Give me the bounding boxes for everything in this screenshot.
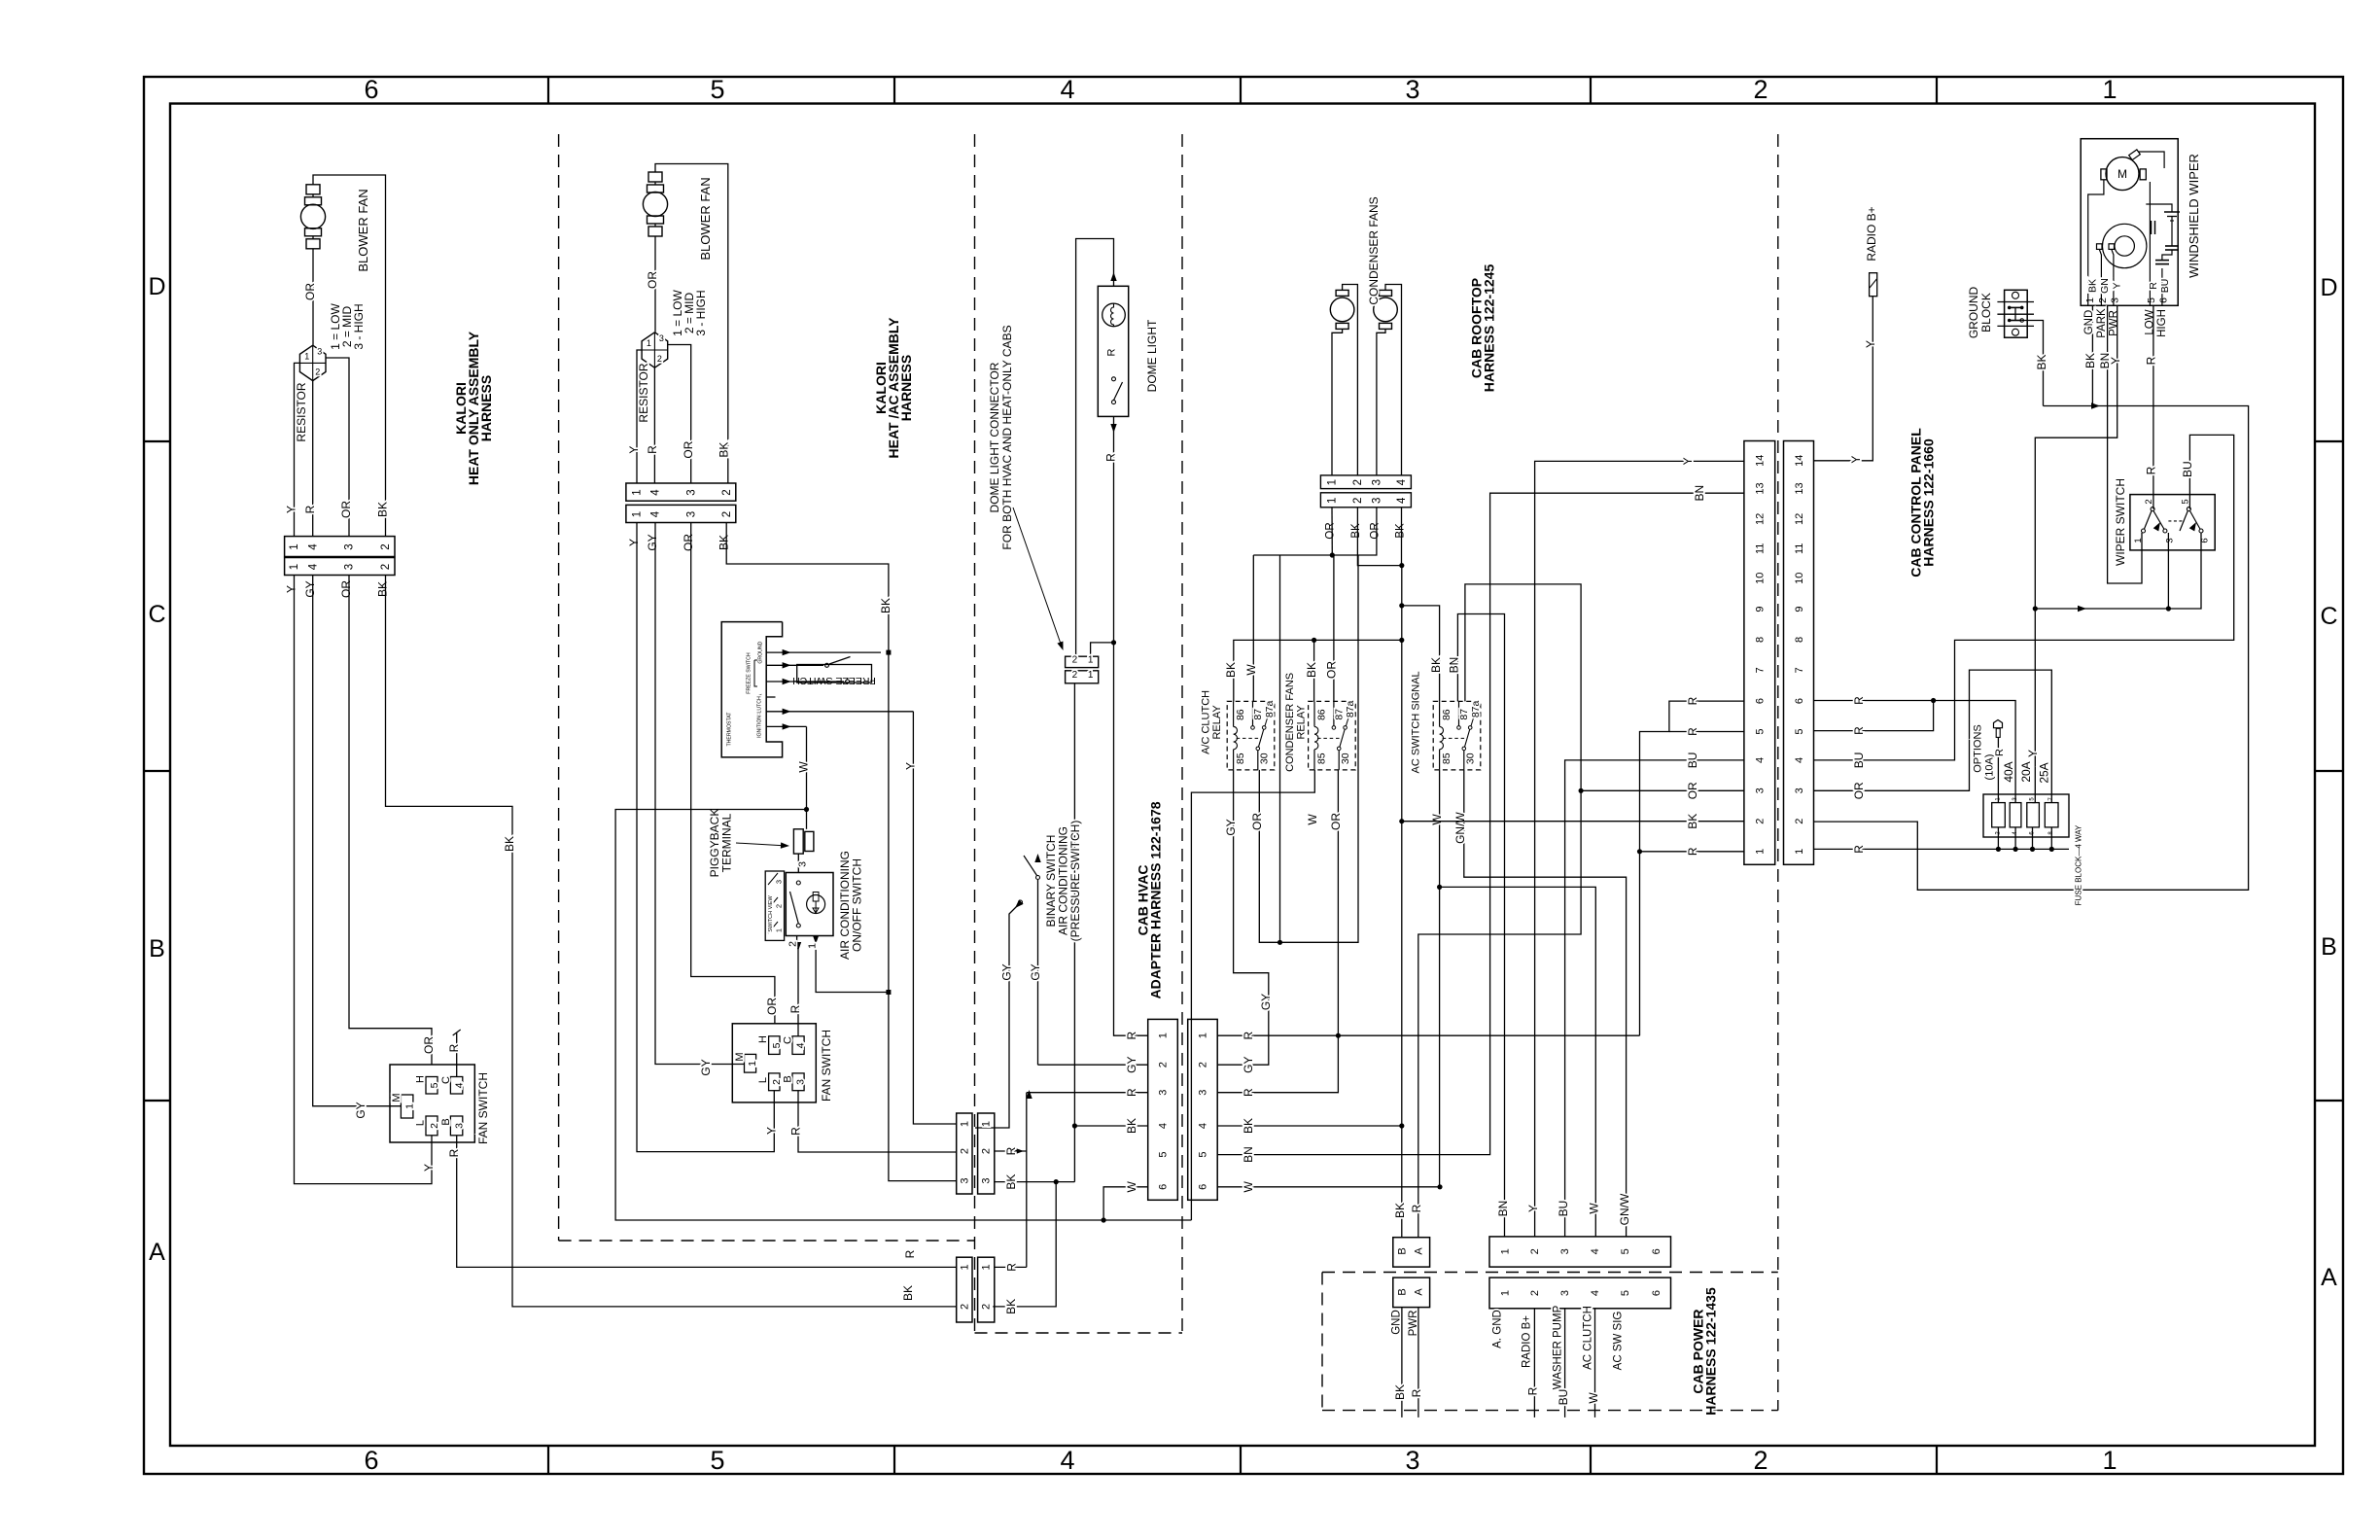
zone dividers top strip [547, 77, 549, 104]
svg-text:Y: Y [1864, 340, 1877, 348]
svg-text:Y: Y [1681, 457, 1695, 465]
svg-text:85: 85 [1315, 752, 1327, 764]
wire OR resistor2 pin3 [668, 345, 691, 484]
svg-text:4: 4 [1590, 1248, 1601, 1254]
wire BK ground block to ground bus [2022, 321, 2044, 406]
svg-text:4: 4 [1396, 497, 1408, 504]
svg-text:R: R [2144, 466, 2157, 474]
wire condenser fan M4 loops [1385, 285, 1402, 475]
svg-text:BLOWER FAN: BLOWER FAN [698, 177, 713, 260]
freeze switch module pin GROUND [766, 651, 881, 653]
svg-text:BK: BK [2083, 353, 2097, 368]
wiper gear [2103, 224, 2147, 267]
wire Y resistor2 pin1 [637, 350, 642, 483]
svg-text:2: 2 [2097, 297, 2109, 303]
wire R cab power B/A pin A to relay3 87 [1418, 584, 1581, 1238]
svg-text:R: R [1242, 1032, 1255, 1040]
wire R rooftop right pin1 fuse feed [1814, 848, 2070, 850]
condenser fan M3 [1336, 290, 1348, 296]
svg-text:BU: BU [1686, 752, 1699, 769]
rooftop 14-pin connector pair [1744, 441, 1775, 865]
svg-text:5: 5 [1755, 728, 1767, 734]
svg-text:1: 1 [632, 511, 644, 517]
svg-text:OR: OR [1370, 522, 1382, 539]
svg-text:B: B [440, 1118, 452, 1125]
wire R rooftop right pin6 to fuse 40A [1814, 701, 2016, 803]
svg-text:11: 11 [1794, 543, 1805, 554]
wiper motor M [2106, 157, 2139, 191]
svg-text:8: 8 [1794, 637, 1805, 643]
svg-text:87a: 87a [1470, 700, 1482, 717]
svg-text:1: 1 [1198, 1032, 1209, 1038]
svg-text:BK: BK [1393, 1203, 1407, 1218]
svg-text:RADIO B+: RADIO B+ [1522, 1315, 1533, 1368]
svg-text:FAN SWITCH: FAN SWITCH [820, 1030, 833, 1102]
wire R A/C switch to fan switch 2 pin4 [797, 942, 799, 1036]
cab power harness dashed box [1322, 1272, 1778, 1274]
svg-text:R: R [1852, 696, 1866, 705]
svg-text:B: B [149, 935, 165, 962]
svg-text:R: R [1125, 1088, 1138, 1097]
svg-text:2: 2 [1352, 498, 1364, 504]
svg-text:85: 85 [1441, 752, 1452, 764]
svg-text:3: 3 [796, 861, 808, 867]
svg-text:20A: 20A [2019, 761, 2033, 782]
svg-text:R: R [1686, 847, 1699, 856]
svg-text:A: A [1414, 1288, 1425, 1296]
adapter 2-pin connector pair [957, 1257, 972, 1322]
wire BN relay3 86 to cab power pin1 [1457, 614, 1504, 1237]
svg-text:2: 2 [1352, 479, 1364, 485]
svg-text:OR: OR [682, 440, 695, 458]
adapter 6-pin right wire W [1217, 1186, 1440, 1188]
svg-text:SWITCH VIEW: SWITCH VIEW [768, 895, 774, 932]
svg-text:R: R [1525, 1386, 1539, 1395]
svg-text:13: 13 [1794, 482, 1805, 494]
svg-text:R: R [1103, 453, 1117, 462]
svg-text:OR: OR [303, 283, 317, 300]
wire from boundary to relay1 30 run [1279, 555, 1281, 942]
svg-text:R: R [1125, 1032, 1138, 1040]
svg-text:FREEZE SWITCH: FREEZE SWITCH [792, 675, 876, 686]
adapter 6-pin right wire R pin3 up to pin1 R [1217, 1035, 1338, 1093]
svg-text:Y: Y [1526, 1205, 1540, 1212]
svg-text:WASHER PUMP: WASHER PUMP [1553, 1305, 1564, 1389]
svg-text:BK: BK [1224, 662, 1238, 678]
svg-text:AC SW SIG: AC SW SIG [1613, 1312, 1625, 1371]
kalori heat/ac box bottom dashed [559, 1240, 975, 1242]
connector J2A heat/ac 4-pin [626, 483, 736, 501]
svg-text:3: 3 [2109, 297, 2120, 303]
wire R rooftop right pin5 jumper [1814, 701, 1934, 731]
svg-text:W: W [1244, 664, 1258, 676]
svg-text:3: 3 [1372, 479, 1383, 485]
svg-text:8: 8 [1755, 637, 1767, 643]
fan switch S2 (heat/ac) [732, 1024, 816, 1102]
svg-text:C: C [783, 1036, 794, 1044]
svg-text:12: 12 [1755, 513, 1767, 525]
svg-text:2: 2 [380, 564, 392, 570]
svg-text:5: 5 [1198, 1152, 1209, 1158]
wire R bus to lower 2-pin pin1 [995, 1266, 1027, 1268]
svg-text:WIPER SWITCH: WIPER SWITCH [2114, 478, 2127, 566]
svg-text:CONDENSER FANS: CONDENSER FANS [1367, 196, 1381, 304]
svg-text:3: 3 [1559, 1248, 1571, 1254]
wire Y radio B+ to rooftop right pin14 [1814, 297, 1873, 461]
svg-text:4: 4 [1198, 1123, 1209, 1129]
svg-text:R: R [788, 1004, 802, 1013]
switch view box [765, 871, 784, 940]
svg-text:CONDENSER FANS: CONDENSER FANS [1284, 673, 1296, 772]
svg-text:BK: BK [879, 598, 892, 613]
svg-text:1: 1 [632, 489, 644, 495]
freeze switch module outline [721, 622, 782, 757]
svg-text:ON/OFF SWITCH: ON/OFF SWITCH [850, 858, 863, 952]
svg-text:RELAY: RELAY [1295, 705, 1307, 740]
windshield wiper box [2081, 139, 2178, 306]
svg-text:OR: OR [339, 580, 353, 598]
svg-text:DOME LIGHT CONNECTOR: DOME LIGHT CONNECTOR [988, 362, 1001, 512]
svg-text:1: 1 [981, 1121, 993, 1127]
svg-text:BLOWER FAN: BLOWER FAN [356, 189, 370, 271]
svg-text:FREEZE SWITCH: FREEZE SWITCH [747, 652, 752, 694]
svg-text:6: 6 [2157, 297, 2169, 303]
svg-text:BK: BK [1429, 657, 1443, 673]
wire BN wiper park to wiper switch pin1 [2108, 305, 2142, 583]
svg-text:R: R [646, 445, 659, 454]
svg-text:1: 1 [959, 1264, 970, 1270]
wire R rooftop pin1 left to R feed [1640, 851, 1744, 853]
svg-text:9: 9 [1794, 606, 1805, 612]
svg-text:OR: OR [682, 534, 695, 551]
wire OR rooftop pin3 left [1581, 789, 1744, 791]
svg-text:W: W [1242, 1180, 1255, 1192]
svg-text:6: 6 [364, 1446, 378, 1475]
svg-text:4: 4 [1060, 1446, 1074, 1475]
svg-text:5: 5 [771, 1042, 783, 1048]
a/c clutch relay K1 [1227, 701, 1275, 770]
svg-text:Y: Y [2026, 750, 2040, 757]
svg-text:RESISTOR: RESISTOR [637, 363, 650, 422]
condenser fan M4 [1380, 290, 1392, 296]
svg-text:4: 4 [307, 543, 319, 550]
svg-text:GY: GY [354, 1102, 367, 1118]
svg-text:HARNESS: HARNESS [898, 355, 914, 421]
wire R adapter 3-pin pin2 to R bus [995, 1150, 1027, 1152]
svg-text:R: R [1242, 1088, 1255, 1097]
blower fan M2 (heat/ac) [648, 172, 662, 182]
svg-text:2: 2 [959, 1304, 970, 1310]
adapter 6-pin connector pair [1148, 1019, 1178, 1200]
svg-text:3: 3 [685, 511, 697, 517]
svg-text:4: 4 [794, 1042, 806, 1048]
svg-text:HARNESS 122-1660: HARNESS 122-1660 [1921, 438, 1937, 567]
dome light lamp [1102, 303, 1126, 327]
ac switch signal relay K3 [1433, 701, 1481, 770]
svg-text:R: R [1852, 726, 1866, 735]
wire fan1 top to BK drop [313, 175, 386, 537]
svg-text:4: 4 [1755, 757, 1767, 763]
svg-text:5: 5 [2146, 297, 2157, 303]
wire BK wiper GND pin1 [2091, 305, 2093, 405]
svg-text:2: 2 [657, 354, 662, 364]
svg-text:OR: OR [646, 271, 659, 289]
svg-text:5: 5 [1158, 1152, 1170, 1158]
svg-text:1: 1 [403, 1103, 415, 1109]
svg-text:A: A [1414, 1247, 1425, 1255]
svg-text:BK: BK [1350, 523, 1362, 539]
svg-text:1: 1 [2102, 75, 2117, 104]
svg-text:R: R [1994, 749, 2006, 756]
svg-text:OR: OR [1324, 661, 1338, 679]
wire BK dome connector to adapter 6-pin pin4 and 3-pin pin3 [1073, 683, 1075, 1182]
svg-text:4: 4 [1158, 1123, 1170, 1129]
svg-text:IGNITION: IGNITION [757, 716, 763, 738]
harness boundary dashed line x=1829 [1777, 134, 1779, 1411]
cab power 6-pin lower wires [1533, 1309, 1535, 1417]
svg-text:R: R [1106, 348, 1118, 356]
wire BK relay3 85 to BK bus [1402, 606, 1440, 702]
svg-text:BK: BK [717, 442, 730, 458]
svg-text:OR: OR [1686, 782, 1699, 799]
wire GY to fan switch 1 pin1 [313, 576, 402, 1106]
wire relay1 87a to junction [1252, 555, 1254, 701]
svg-text:4: 4 [650, 510, 662, 517]
svg-text:GROUND: GROUND [758, 641, 764, 663]
harness boundary dashed line x=1002 [974, 134, 976, 1333]
svg-text:GROUND: GROUND [1967, 287, 1980, 339]
svg-text:1: 1 [2102, 1446, 2117, 1475]
adapter 6-pin right wire BN to rooftop pin13 [1217, 493, 1744, 1154]
svg-text:R: R [2144, 356, 2157, 365]
svg-text:3: 3 [453, 1123, 465, 1129]
a/c switch pin2 wire down [796, 936, 798, 943]
svg-text:M: M [391, 1093, 402, 1102]
svg-text:DOME LIGHT: DOME LIGHT [1145, 319, 1159, 392]
cab power B/A connector lower [1393, 1277, 1430, 1308]
svg-text:Y: Y [2109, 357, 2122, 365]
connector J1B heat-only 4-pin [285, 558, 395, 576]
svg-text:A: A [149, 1239, 165, 1266]
wire Y cab power pin2 to rooftop pin14 [1535, 461, 1744, 1237]
svg-text:HARNESS 122-1435: HARNESS 122-1435 [1703, 1287, 1719, 1416]
svg-text:C: C [148, 601, 165, 628]
svg-text:FAN SWITCH: FAN SWITCH [476, 1072, 490, 1144]
svg-text:4: 4 [1396, 478, 1408, 485]
svg-text:2: 2 [315, 367, 320, 376]
wire BK relay1 86 to BK bus [1234, 640, 1402, 701]
svg-text:2: 2 [1753, 75, 1767, 104]
freeze switch pin 3A stub [766, 696, 775, 698]
svg-text:GY: GY [999, 963, 1013, 980]
svg-text:3: 3 [344, 564, 356, 570]
wire relay2 87 from junction [1333, 555, 1335, 701]
svg-text:OPTIONS: OPTIONS [1973, 724, 1984, 773]
svg-text:R: R [1410, 1388, 1423, 1397]
svg-text:2: 2 [1072, 670, 1078, 681]
adapter 3-pin connector pair [957, 1113, 972, 1194]
svg-text:1: 1 [304, 351, 309, 361]
wire OR rooftop right pin3 to fuse 25A [1814, 670, 2052, 803]
svg-text:1: 1 [2133, 538, 2144, 542]
svg-text:BK: BK [717, 535, 730, 550]
svg-text:GY: GY [1125, 1057, 1138, 1073]
svg-text:2: 2 [1158, 1062, 1170, 1067]
svg-text:2: 2 [1755, 819, 1767, 824]
svg-text:87: 87 [1458, 709, 1470, 720]
wire BK heat/ac ground bus [726, 523, 957, 1181]
svg-text:BLOCK: BLOCK [1979, 293, 1993, 332]
harness boundary dashed line x=1216 [1181, 134, 1183, 1333]
svg-text:3: 3 [659, 333, 664, 343]
wire Y to fan switch 1 pin2 [295, 576, 433, 1184]
wire BU wiper switch pin5 to rooftop pin4 [1814, 435, 2234, 760]
svg-text:W: W [1306, 814, 1319, 825]
wiper switch contacts [2151, 507, 2154, 511]
svg-text:Y: Y [627, 446, 641, 454]
dome light connector arrow [1013, 507, 1062, 647]
svg-text:2: 2 [1529, 1248, 1541, 1254]
svg-text:BU: BU [2181, 461, 2194, 477]
svg-text:WINDSHIELD WIPER: WINDSHIELD WIPER [2187, 154, 2201, 278]
svg-text:3: 3 [2164, 538, 2175, 542]
svg-text:GY: GY [646, 534, 659, 550]
svg-text:Y: Y [1849, 456, 1863, 464]
wiper park contacts [2097, 244, 2103, 250]
svg-text:GY: GY [699, 1059, 713, 1075]
svg-text:GN: GN [2099, 278, 2111, 294]
svg-text:1: 1 [289, 543, 300, 549]
svg-text:3: 3 [1794, 787, 1805, 793]
svg-text:1: 1 [806, 943, 818, 949]
fuse F4 25A [2045, 803, 2058, 827]
svg-text:87: 87 [1252, 709, 1264, 720]
svg-text:L: L [757, 1077, 769, 1083]
svg-text:FOR BOTH HVAC AND HEAT-ONLY CA: FOR BOTH HVAC AND HEAT-ONLY CABS [1000, 325, 1014, 549]
svg-text:4: 4 [650, 489, 662, 496]
binary switch (pressure switch) [1037, 880, 1039, 1065]
svg-text:Y: Y [903, 762, 917, 770]
svg-text:2: 2 [787, 941, 798, 947]
svg-text:GY: GY [303, 580, 317, 597]
svg-text:2: 2 [981, 1304, 993, 1310]
wiper ground symbol [2164, 211, 2180, 213]
svg-text:1: 1 [747, 1061, 758, 1067]
svg-text:BN: BN [1496, 1201, 1510, 1217]
svg-text:R: R [1004, 1263, 1018, 1272]
svg-text:1: 1 [1755, 849, 1767, 855]
svg-text:R: R [1410, 1204, 1423, 1212]
svg-text:6: 6 [2200, 538, 2211, 542]
svg-text:1: 1 [1327, 498, 1339, 504]
wire dome light top loop to connector pin2 [1076, 239, 1114, 657]
dome light connector 2-pin pair [1066, 656, 1099, 667]
ground block [2005, 290, 2028, 337]
wire GY to fan switch 2 pin1 [655, 523, 745, 1065]
svg-text:2: 2 [1794, 819, 1805, 824]
svg-text:(PRESSURE SWITCH): (PRESSURE SWITCH) [1068, 821, 1082, 942]
wire OR to fan switch 2 pin5 [691, 523, 775, 1024]
fuse block 4-way [1983, 794, 2069, 837]
wiper switch box [2130, 495, 2215, 550]
svg-text:1: 1 [1327, 479, 1339, 485]
svg-text:ADAPTER HARNESS 122-1678: ADAPTER HARNESS 122-1678 [1148, 801, 1164, 998]
svg-text:BK: BK [1305, 662, 1318, 678]
svg-text:2: 2 [1753, 1446, 1767, 1475]
wiper internal wires [2088, 180, 2104, 305]
svg-text:3: 3 [1405, 1446, 1419, 1475]
svg-text:OR: OR [422, 1036, 436, 1054]
svg-text:5: 5 [1794, 728, 1805, 734]
svg-text:OR: OR [1852, 782, 1866, 799]
svg-text:86: 86 [1235, 709, 1246, 720]
svg-text:3: 3 [981, 1178, 993, 1184]
condenser fans 4-pin connector pair [1320, 475, 1411, 489]
svg-text:AC SWITCH SIGNAL: AC SWITCH SIGNAL [1411, 671, 1422, 773]
harness boundary dashed line x=574 [558, 134, 560, 1241]
svg-text:5: 5 [1620, 1248, 1631, 1254]
wire R wiper low to wiper switch pin2 [2152, 305, 2154, 508]
svg-text:9: 9 [1755, 606, 1767, 612]
fuse F3 20A [2027, 803, 2040, 827]
svg-text:2: 2 [1198, 1062, 1209, 1067]
svg-text:1: 1 [1088, 655, 1094, 666]
svg-text:2: 2 [774, 904, 783, 908]
svg-text:3 - HIGH: 3 - HIGH [352, 303, 366, 349]
wire BK relay2 86 to BK bus [1313, 640, 1315, 701]
a/c switch pin3 wire from piggyback [797, 854, 799, 872]
svg-text:LOW: LOW [2145, 309, 2156, 334]
svg-text:BK: BK [2035, 354, 2048, 369]
svg-text:4: 4 [1794, 757, 1805, 763]
svg-text:6: 6 [1755, 698, 1767, 704]
svg-text:86: 86 [1315, 709, 1327, 720]
svg-text:3: 3 [794, 1079, 806, 1085]
svg-text:12: 12 [1794, 513, 1805, 525]
wire OR resistor pin3 to connector [326, 358, 349, 537]
R bus vertical x=1056 [1026, 1093, 1028, 1268]
piggyback terminal [793, 829, 803, 854]
adapter harness box bottom dashed [975, 1332, 1183, 1334]
svg-text:GY: GY [1029, 963, 1042, 980]
connector J2B heat/ac 4-pin [626, 505, 736, 522]
row dividers right strip [2315, 440, 2343, 442]
freeze switch contact symbol and label box [797, 665, 872, 683]
fan switch S1 (heat only) [390, 1065, 474, 1142]
options plug symbol [1994, 720, 2003, 728]
svg-text:BN: BN [1242, 1146, 1255, 1163]
svg-text:30: 30 [1340, 752, 1351, 764]
svg-text:3: 3 [1158, 1090, 1170, 1096]
svg-text:6: 6 [1651, 1248, 1662, 1254]
svg-text:6: 6 [1158, 1184, 1170, 1190]
svg-text:Y: Y [2111, 282, 2122, 289]
svg-text:GND: GND [2083, 310, 2095, 335]
svg-text:BK: BK [1004, 1174, 1018, 1190]
wire BK heat-only ground run [386, 576, 957, 1307]
svg-text:3: 3 [959, 1178, 970, 1184]
svg-text:D: D [2320, 274, 2337, 301]
svg-text:L: L [415, 1120, 427, 1126]
svg-text:87a: 87a [1345, 700, 1356, 717]
svg-text:GY: GY [1224, 819, 1238, 835]
svg-text:25A: 25A [2037, 762, 2050, 783]
svg-text:2: 2 [771, 1079, 783, 1085]
wire OR condenser pin3 to relay junction [1253, 507, 1377, 555]
wire GN/W relay3 30 to cab power pin5 [1464, 770, 1627, 1237]
wire OR condenser pin1 to relay junction [1331, 507, 1333, 555]
svg-text:B: B [1397, 1247, 1409, 1254]
